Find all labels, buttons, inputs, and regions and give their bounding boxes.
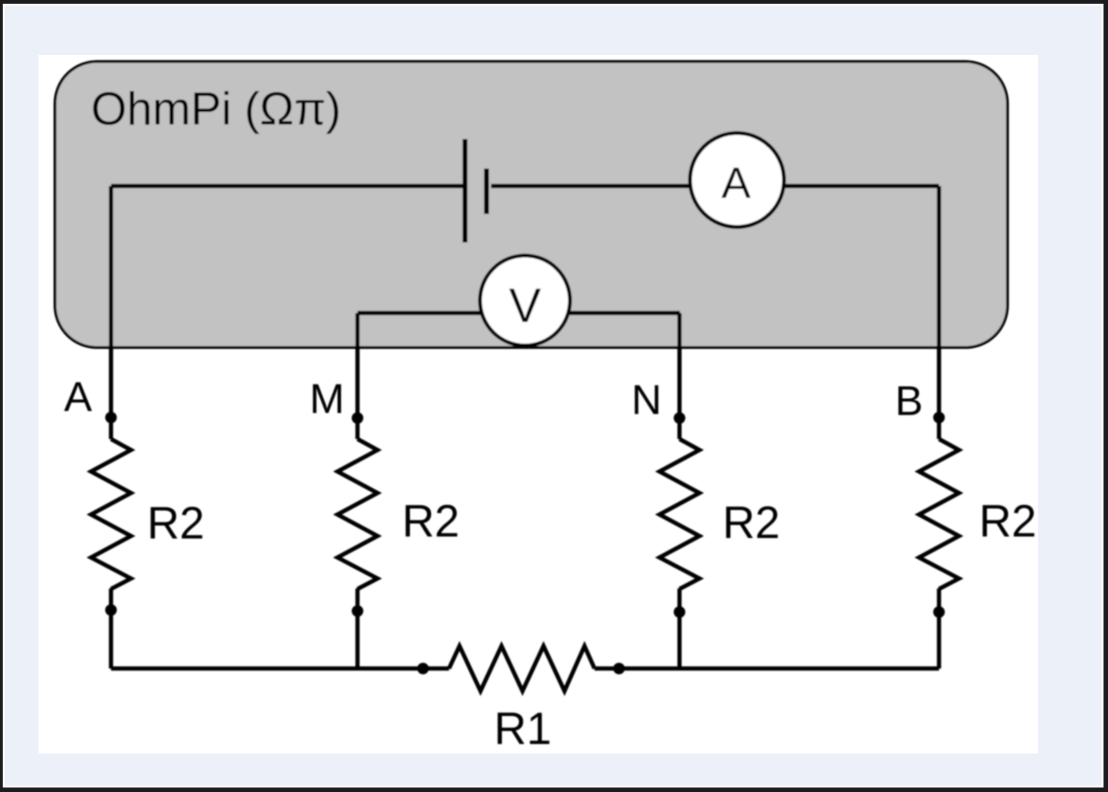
junction dot R1-right bbox=[613, 663, 625, 675]
svg-text:R2: R2 bbox=[979, 496, 1037, 547]
wire leg A bbox=[109, 186, 113, 669]
wire bottom-right bbox=[595, 666, 940, 670]
OhmPi enclosure box bbox=[55, 62, 1008, 348]
wire bottom-left bbox=[111, 666, 449, 670]
white canvas bbox=[39, 55, 1039, 754]
resistor R2 (leg A) bbox=[91, 439, 131, 589]
wire leg M bbox=[355, 313, 359, 669]
ammeter U-A bbox=[690, 133, 784, 227]
node B dot bbox=[933, 412, 945, 424]
junction dot B-bottom bbox=[933, 606, 945, 618]
node A dot bbox=[105, 412, 117, 424]
wire top-right bbox=[491, 184, 939, 188]
svg-text:R1: R1 bbox=[494, 703, 552, 754]
svg-text:OhmPi (Ωπ): OhmPi (Ωπ) bbox=[91, 83, 341, 135]
svg-text:R2: R2 bbox=[723, 497, 781, 548]
svg-text:B: B bbox=[895, 377, 923, 424]
node N dot bbox=[674, 412, 686, 424]
voltmeter U-V bbox=[480, 256, 570, 346]
resistor R2 (leg B) bbox=[919, 439, 959, 589]
node M dot bbox=[352, 412, 364, 424]
resistor R1 bbox=[449, 646, 595, 691]
wire top-left bbox=[111, 184, 465, 188]
svg-text:R2: R2 bbox=[147, 498, 205, 549]
svg-text:N: N bbox=[631, 376, 661, 423]
junction dot N-bottom bbox=[674, 606, 686, 618]
resistor R2 (leg M) bbox=[338, 439, 378, 589]
resistor R2 (leg N) bbox=[660, 439, 700, 589]
junction dot M-bottom bbox=[352, 605, 364, 617]
junction dot R1-left bbox=[417, 663, 429, 675]
svg-text:A: A bbox=[64, 373, 92, 420]
wire leg N bbox=[677, 313, 681, 669]
svg-text:V: V bbox=[509, 280, 541, 333]
junction dot A-bottom bbox=[105, 604, 117, 616]
svg-text:M: M bbox=[310, 375, 345, 422]
svg-text:A: A bbox=[721, 159, 751, 208]
wire leg B bbox=[937, 186, 941, 669]
svg-text:R2: R2 bbox=[402, 496, 460, 547]
battery bbox=[465, 139, 487, 243]
wire voltmeter branch bbox=[358, 311, 681, 315]
